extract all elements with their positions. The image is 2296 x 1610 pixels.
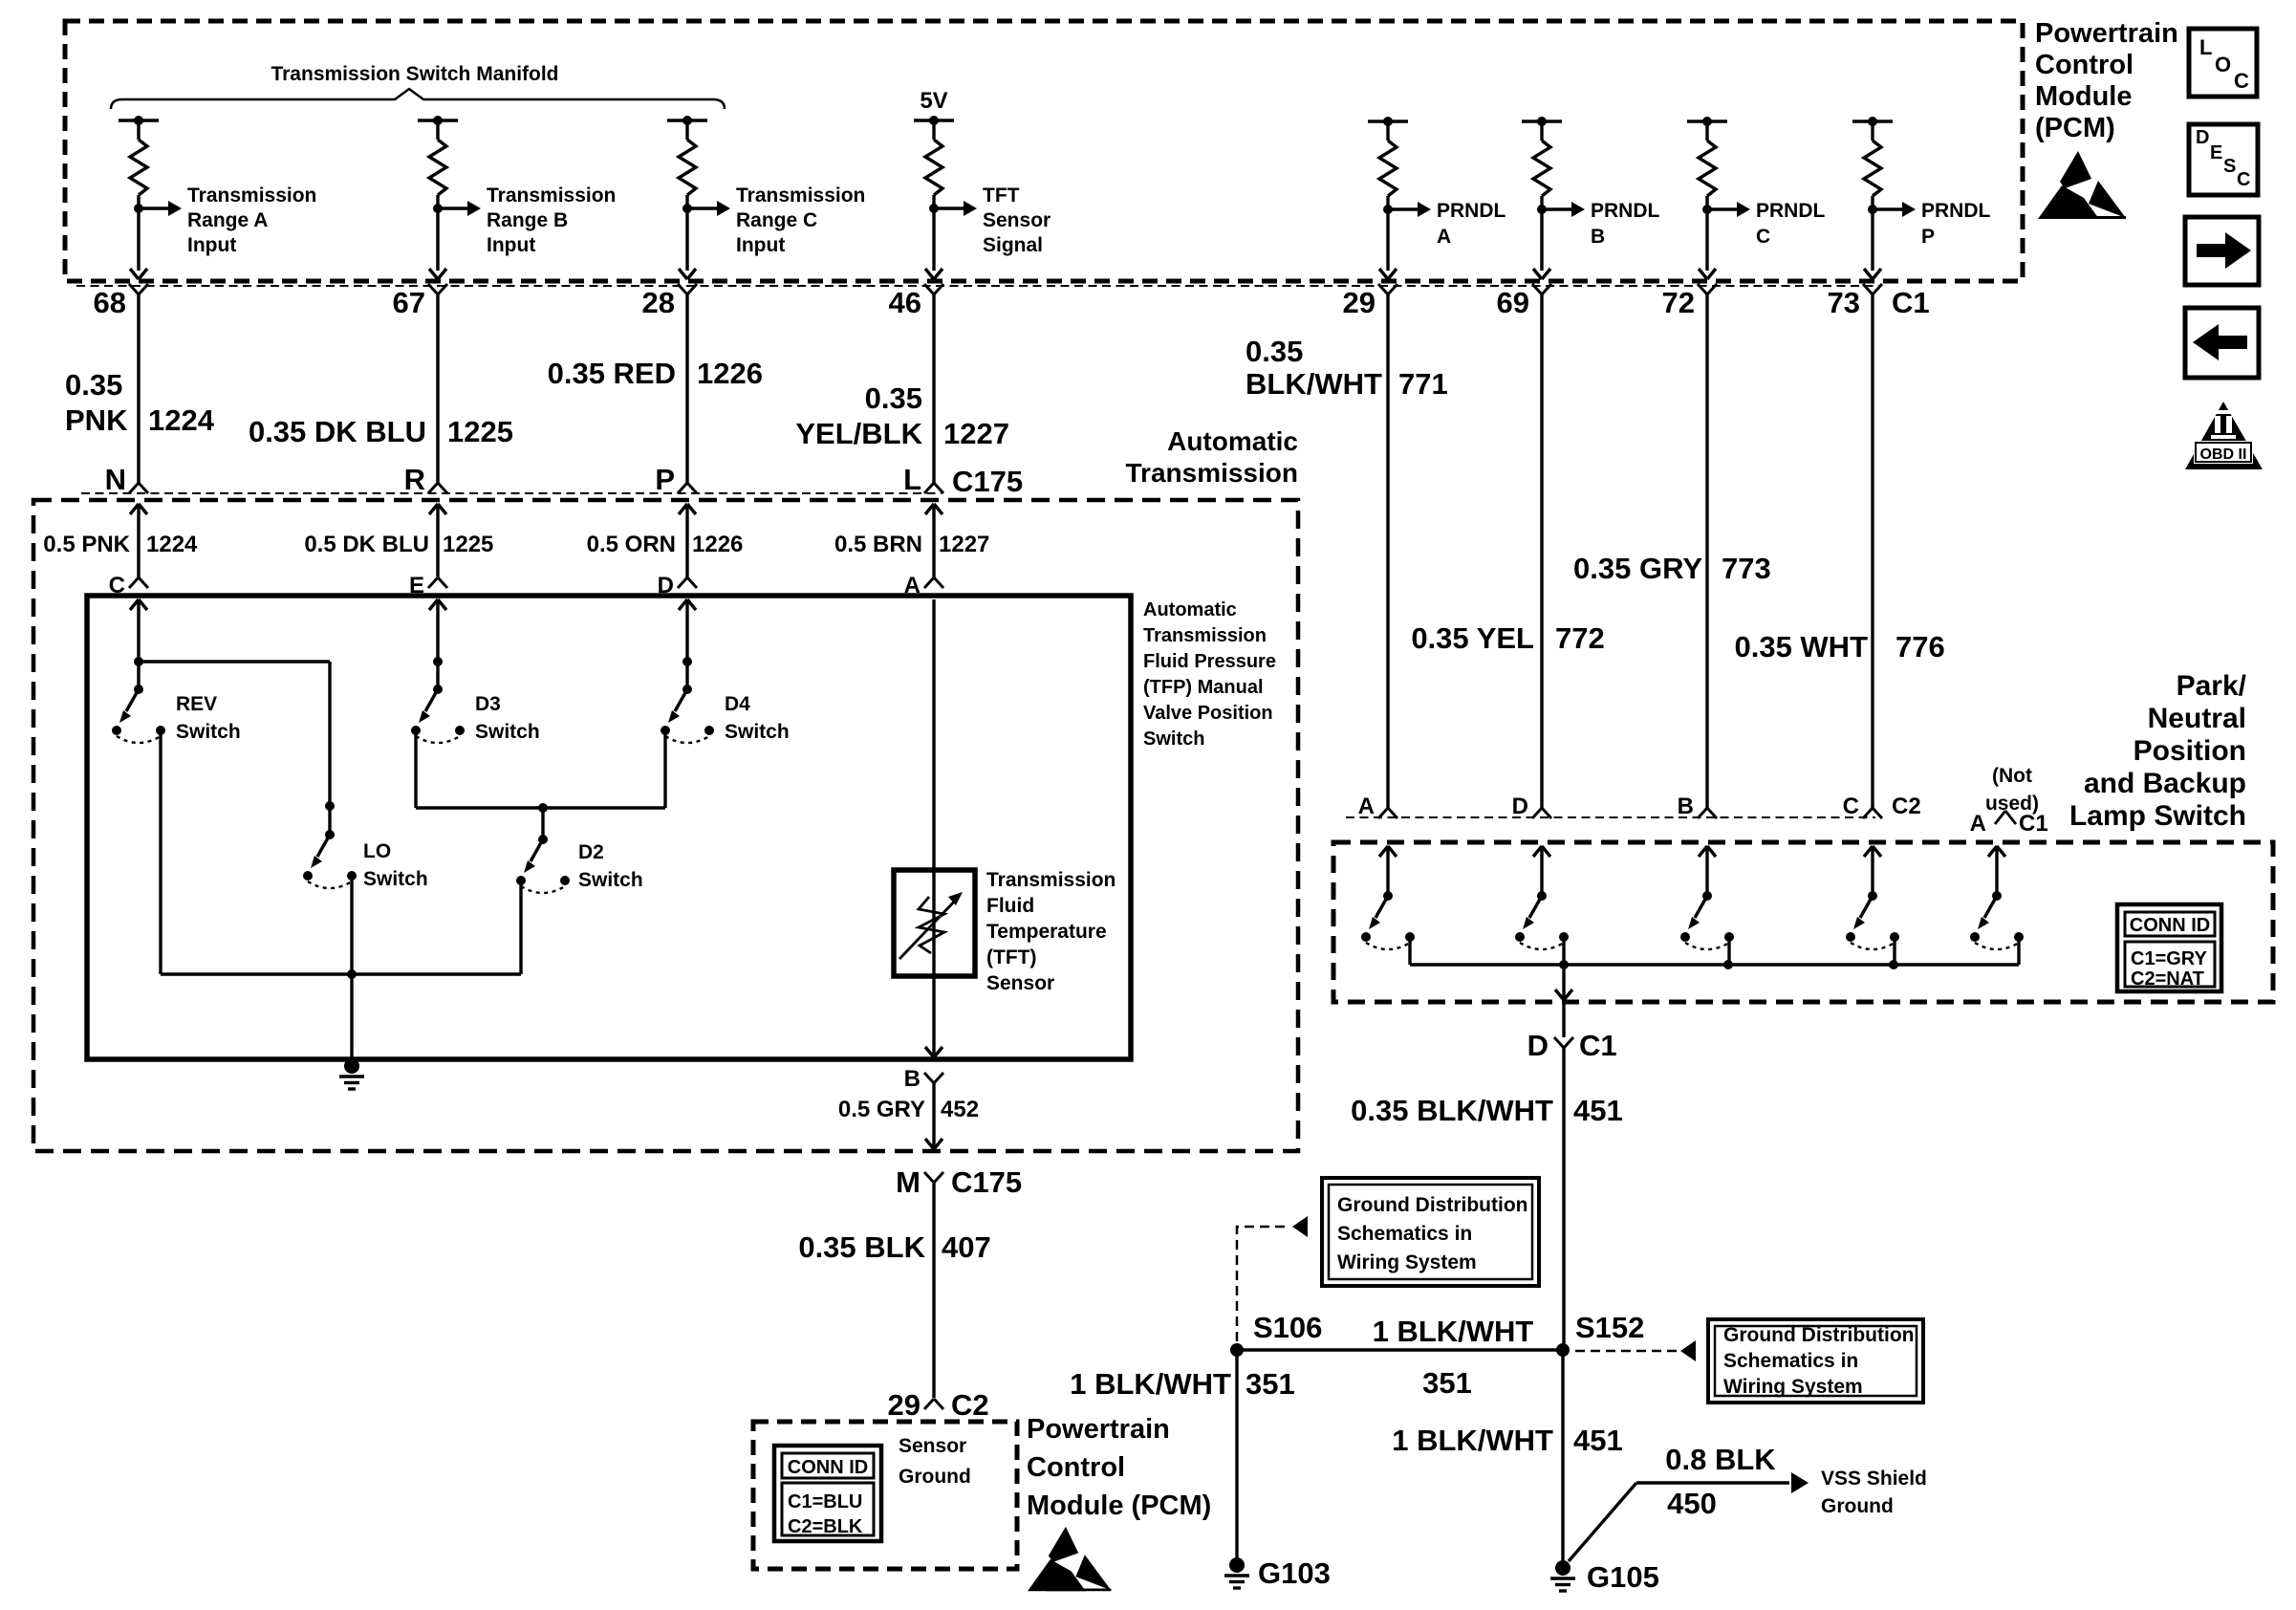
svg-text:1226: 1226 <box>692 532 743 557</box>
svg-text:Input: Input <box>736 234 785 256</box>
svg-text:C1: C1 <box>1892 286 1930 319</box>
svg-text:B: B <box>904 1066 921 1092</box>
svg-text:C175: C175 <box>952 465 1023 498</box>
svg-text:0.5 DK BLU: 0.5 DK BLU <box>304 532 429 557</box>
svg-text:D: D <box>1512 794 1528 819</box>
svg-text:Automatic: Automatic <box>1167 426 1298 456</box>
svg-text:Park/: Park/ <box>2177 670 2247 702</box>
svg-text:72: 72 <box>1662 286 1695 319</box>
svg-text:M: M <box>896 1165 921 1199</box>
svg-text:PNK: PNK <box>65 403 128 437</box>
svg-text:B: B <box>1678 794 1694 819</box>
svg-text:O: O <box>2215 53 2231 76</box>
svg-text:0.35 BLK/WHT: 0.35 BLK/WHT <box>1351 1094 1553 1127</box>
svg-text:R: R <box>404 463 425 496</box>
svg-text:1225: 1225 <box>447 415 513 448</box>
svg-text:C: C <box>1843 794 1859 819</box>
svg-text:L: L <box>903 463 921 496</box>
svg-text:Transmission: Transmission <box>487 185 616 207</box>
svg-text:Range C: Range C <box>736 209 817 231</box>
svg-text:450: 450 <box>1667 1487 1717 1520</box>
svg-text:A: A <box>1437 226 1451 248</box>
svg-text:Position: Position <box>2134 735 2246 767</box>
svg-text:A: A <box>1970 811 1986 837</box>
svg-text:69: 69 <box>1497 286 1529 319</box>
svg-text:0.5 GRY: 0.5 GRY <box>838 1097 925 1122</box>
svg-text:Transmission: Transmission <box>187 185 316 207</box>
svg-text:1227: 1227 <box>939 532 989 557</box>
svg-text:Switch: Switch <box>363 868 428 890</box>
svg-text:C: C <box>2234 69 2249 93</box>
svg-text:Sensor: Sensor <box>899 1435 966 1457</box>
svg-text:C: C <box>2237 169 2250 190</box>
svg-text:1227: 1227 <box>943 417 1009 450</box>
svg-text:Input: Input <box>487 234 535 256</box>
svg-text:N: N <box>105 463 126 496</box>
svg-text:351: 351 <box>1422 1366 1472 1400</box>
svg-text:Temperature: Temperature <box>986 921 1107 943</box>
svg-text:Fluid Pressure: Fluid Pressure <box>1143 651 1276 672</box>
svg-text:Control: Control <box>2035 50 2134 80</box>
svg-text:0.35 BLK: 0.35 BLK <box>798 1230 925 1264</box>
svg-text:351: 351 <box>1245 1367 1295 1401</box>
svg-text:PRNDL: PRNDL <box>1437 200 1506 222</box>
svg-text:67: 67 <box>393 286 425 319</box>
svg-text:D: D <box>1527 1029 1549 1062</box>
svg-text:407: 407 <box>942 1230 991 1264</box>
svg-text:1 BLK/WHT: 1 BLK/WHT <box>1070 1367 1231 1401</box>
svg-text:Module (PCM): Module (PCM) <box>1027 1490 1211 1521</box>
svg-text:1 BLK/WHT: 1 BLK/WHT <box>1373 1315 1534 1348</box>
svg-text:Transmission: Transmission <box>1143 625 1267 646</box>
svg-text:TFT: TFT <box>983 185 1020 207</box>
svg-text:C1=BLU: C1=BLU <box>788 1491 862 1512</box>
svg-text:Neutral: Neutral <box>2148 703 2246 734</box>
svg-text:451: 451 <box>1573 1424 1623 1457</box>
svg-text:C2=NAT: C2=NAT <box>2131 968 2204 990</box>
svg-text:D: D <box>2196 127 2209 148</box>
svg-text:46: 46 <box>889 286 921 319</box>
svg-text:(TFT): (TFT) <box>986 946 1036 968</box>
svg-text:C2: C2 <box>1892 794 1921 819</box>
svg-text:E: E <box>2210 142 2222 163</box>
svg-text:Powertrain: Powertrain <box>1027 1414 1170 1445</box>
svg-text:Module: Module <box>2035 81 2133 112</box>
svg-text:C2=BLK: C2=BLK <box>788 1516 863 1537</box>
svg-text:0.5 BRN: 0.5 BRN <box>834 532 922 557</box>
svg-text:0.35 RED: 0.35 RED <box>548 357 676 390</box>
svg-text:(TFP) Manual: (TFP) Manual <box>1143 677 1264 698</box>
svg-text:0.8 BLK: 0.8 BLK <box>1665 1443 1776 1476</box>
svg-text:(Not: (Not <box>1992 765 2032 787</box>
svg-text:G103: G103 <box>1258 1556 1331 1590</box>
svg-text:452: 452 <box>941 1097 979 1122</box>
svg-text:C: C <box>1756 226 1770 248</box>
svg-text:0.35 YEL: 0.35 YEL <box>1411 621 1534 655</box>
svg-text:G105: G105 <box>1587 1560 1659 1594</box>
svg-text:B: B <box>1591 226 1605 248</box>
svg-text:Switch: Switch <box>725 721 790 743</box>
svg-text:C2: C2 <box>951 1388 989 1422</box>
svg-text:Wiring System: Wiring System <box>1723 1376 1863 1398</box>
svg-text:PRNDL: PRNDL <box>1591 200 1660 222</box>
svg-text:29: 29 <box>888 1388 921 1422</box>
svg-text:0.35: 0.35 <box>865 381 922 415</box>
svg-text:and Backup: and Backup <box>2084 768 2246 799</box>
svg-text:Schematics in: Schematics in <box>1723 1350 1858 1372</box>
svg-text:28: 28 <box>642 286 675 319</box>
svg-text:0.35 GRY: 0.35 GRY <box>1573 552 1702 585</box>
svg-text:Fluid: Fluid <box>986 895 1034 917</box>
svg-text:Range A: Range A <box>187 209 268 231</box>
svg-text:Lamp Switch: Lamp Switch <box>2069 800 2246 832</box>
svg-text:1224: 1224 <box>146 532 198 557</box>
svg-text:D4: D4 <box>725 693 750 715</box>
svg-text:0.5 PNK: 0.5 PNK <box>43 532 130 557</box>
svg-text:CONN ID: CONN ID <box>788 1457 868 1478</box>
svg-text:0.5 ORN: 0.5 ORN <box>587 532 676 557</box>
svg-text:1224: 1224 <box>148 403 215 437</box>
svg-text:C1: C1 <box>2019 811 2048 837</box>
svg-text:0.35 WHT: 0.35 WHT <box>1734 630 1868 664</box>
svg-text:68: 68 <box>94 286 126 319</box>
svg-text:Valve Position: Valve Position <box>1143 703 1273 724</box>
svg-text:776: 776 <box>1895 630 1945 664</box>
svg-text:Transmission: Transmission <box>1125 458 1298 488</box>
svg-text:CONN ID: CONN ID <box>2130 915 2210 936</box>
svg-text:PRNDL: PRNDL <box>1756 200 1826 222</box>
svg-text:451: 451 <box>1573 1094 1623 1127</box>
svg-text:D2: D2 <box>578 841 604 863</box>
svg-text:VSS Shield: VSS Shield <box>1821 1468 1927 1490</box>
svg-text:Switch: Switch <box>1143 729 1204 750</box>
svg-text:0.35: 0.35 <box>1245 335 1303 368</box>
svg-text:773: 773 <box>1722 552 1771 585</box>
svg-text:Input: Input <box>187 234 236 256</box>
svg-text:771: 771 <box>1398 367 1448 401</box>
svg-text:Switch: Switch <box>578 869 643 891</box>
svg-text:P: P <box>1921 226 1935 248</box>
svg-text:YEL/BLK: YEL/BLK <box>795 417 922 450</box>
svg-text:Switch: Switch <box>475 721 540 743</box>
svg-text:P: P <box>655 463 675 496</box>
svg-text:1225: 1225 <box>443 532 493 557</box>
svg-text:LO: LO <box>363 840 391 862</box>
svg-text:C175: C175 <box>951 1165 1022 1199</box>
svg-text:(PCM): (PCM) <box>2035 113 2115 143</box>
svg-text:Signal: Signal <box>983 234 1043 256</box>
svg-text:REV: REV <box>176 693 217 715</box>
svg-text:Range B: Range B <box>487 209 568 231</box>
svg-text:772: 772 <box>1555 621 1605 655</box>
svg-text:1 BLK/WHT: 1 BLK/WHT <box>1392 1424 1553 1457</box>
svg-text:Control: Control <box>1027 1452 1125 1483</box>
svg-text:S106: S106 <box>1253 1311 1322 1344</box>
svg-text:Ground Distribution: Ground Distribution <box>1723 1324 1914 1346</box>
svg-text:S152: S152 <box>1575 1311 1644 1344</box>
svg-text:A: A <box>1358 794 1375 819</box>
svg-text:Wiring System: Wiring System <box>1337 1251 1477 1273</box>
svg-text:1226: 1226 <box>697 357 763 390</box>
svg-text:C1=GRY: C1=GRY <box>2131 948 2208 969</box>
svg-text:Switch: Switch <box>176 721 241 743</box>
svg-text:0.35: 0.35 <box>65 368 122 402</box>
svg-text:Ground: Ground <box>899 1466 971 1488</box>
svg-text:0.35 DK BLU: 0.35 DK BLU <box>249 415 426 448</box>
svg-text:L: L <box>2199 35 2212 59</box>
svg-text:73: 73 <box>1828 286 1860 319</box>
svg-text:Schematics in: Schematics in <box>1337 1223 1472 1245</box>
svg-text:Transmission: Transmission <box>736 185 865 207</box>
svg-text:C1: C1 <box>1579 1029 1617 1062</box>
svg-text:BLK/WHT: BLK/WHT <box>1245 367 1382 401</box>
svg-text:Ground: Ground <box>1821 1495 1894 1517</box>
svg-text:Transmission: Transmission <box>986 869 1116 891</box>
svg-text:Transmission Switch Manifold: Transmission Switch Manifold <box>271 63 558 85</box>
svg-text:Sensor: Sensor <box>983 209 1051 231</box>
svg-text:Automatic: Automatic <box>1143 599 1237 620</box>
svg-text:Sensor: Sensor <box>986 972 1054 994</box>
svg-text:S: S <box>2223 156 2236 177</box>
svg-text:Powertrain: Powertrain <box>2035 18 2178 49</box>
svg-text:OBD II: OBD II <box>2200 446 2247 463</box>
svg-text:PRNDL: PRNDL <box>1921 200 1991 222</box>
svg-text:5V: 5V <box>920 88 947 114</box>
svg-text:D3: D3 <box>475 693 501 715</box>
svg-text:Ground Distribution: Ground Distribution <box>1337 1194 1527 1216</box>
svg-text:29: 29 <box>1343 286 1375 319</box>
